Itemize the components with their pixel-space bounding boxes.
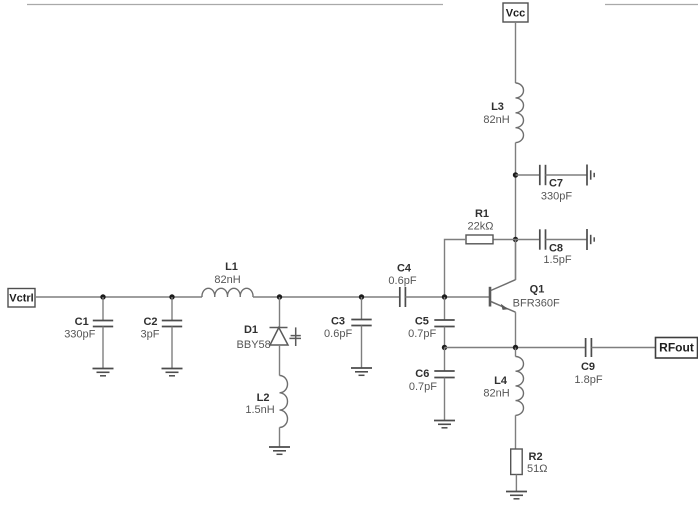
svg-text:C3: C3 <box>331 316 345 328</box>
wire D1 to L2 <box>279 345 281 376</box>
ground (C2) <box>162 369 183 376</box>
wire C8 to ground <box>546 239 588 241</box>
varactor diode D1 <box>237 324 301 351</box>
ground (C8, sideways) <box>587 229 594 250</box>
node C2 junction <box>169 294 174 299</box>
svg-text:C9: C9 <box>581 361 595 373</box>
wire Vcc to L3 <box>515 22 517 83</box>
wire C1 top lead <box>102 297 104 321</box>
svg-text:330pF: 330pF <box>541 191 572 203</box>
inductor L2 <box>245 375 287 427</box>
svg-text:Vctrl: Vctrl <box>9 293 33 305</box>
svg-text:C4: C4 <box>397 263 412 275</box>
svg-text:3pF: 3pF <box>141 329 160 341</box>
svg-text:82nH: 82nH <box>483 114 509 126</box>
svg-text:L3: L3 <box>491 101 504 113</box>
svg-text:0.6pF: 0.6pF <box>324 328 352 340</box>
svg-text:R2: R2 <box>529 451 543 463</box>
svg-text:82nH: 82nH <box>483 388 509 400</box>
port Vctrl <box>8 289 35 308</box>
ground (C3) <box>351 368 372 375</box>
node emitter-line junction left <box>442 345 447 350</box>
wire C1 to ground <box>102 327 104 369</box>
wire C5 to RFout node <box>444 327 446 348</box>
svg-text:BBY58: BBY58 <box>237 339 271 351</box>
svg-text:1.5pF: 1.5pF <box>543 254 571 266</box>
svg-text:BFR360F: BFR360F <box>513 298 560 310</box>
port RFout <box>656 338 698 359</box>
node D1 junction <box>277 294 282 299</box>
node C7 junction <box>513 172 518 177</box>
resistor R2 <box>511 449 548 475</box>
svg-text:L1: L1 <box>225 261 238 273</box>
svg-text:22kΩ: 22kΩ <box>468 221 494 233</box>
svg-text:D1: D1 <box>244 324 258 336</box>
wire C2 top lead <box>171 297 173 321</box>
transistor Q1 <box>490 280 560 313</box>
wire R1 left lead down to base node <box>445 240 467 298</box>
wire C6 to ground <box>444 378 446 421</box>
wire R2 to ground <box>515 475 517 492</box>
wire L3 to collector <box>515 143 517 280</box>
wire C4 to base node <box>406 296 491 298</box>
svg-text:0.6pF: 0.6pF <box>388 275 416 287</box>
wire L4 top lead <box>515 348 517 357</box>
svg-text:L4: L4 <box>494 375 508 387</box>
wire C9 to RFout <box>592 347 656 349</box>
svg-text:51Ω: 51Ω <box>527 463 547 475</box>
port Vcc <box>503 3 528 22</box>
wire RFout line left <box>445 347 586 349</box>
wire C3 top lead <box>361 297 363 320</box>
capacitor C3 <box>324 316 372 341</box>
ground (L2) <box>269 447 290 454</box>
capacitor C9 <box>574 338 602 386</box>
inductor L1 <box>202 261 253 297</box>
svg-text:0.7pF: 0.7pF <box>409 381 437 393</box>
svg-text:C8: C8 <box>549 243 563 255</box>
wire L1 to C4 <box>253 296 400 298</box>
svg-text:C1: C1 <box>75 316 89 328</box>
svg-text:330pF: 330pF <box>64 329 95 341</box>
node base junction <box>442 294 447 299</box>
node emitter-line junction right <box>513 345 518 350</box>
capacitor C1 <box>64 316 113 341</box>
wire C6 top lead <box>444 348 446 372</box>
node C8/R1 junction <box>513 237 518 242</box>
wire R1 right lead <box>493 239 516 241</box>
capacitor C8 <box>540 229 572 266</box>
node C1 junction <box>100 294 105 299</box>
capacitor C7 <box>540 165 573 203</box>
wire C7 to ground <box>546 174 588 176</box>
wire to C7 <box>516 174 540 176</box>
wire C5 top lead <box>444 297 446 320</box>
svg-text:Q1: Q1 <box>530 284 545 296</box>
svg-text:L2: L2 <box>257 392 270 404</box>
inductor L4 <box>483 357 523 416</box>
svg-text:C6: C6 <box>415 368 429 380</box>
wire L4 to R2 <box>515 415 517 449</box>
wire C3 to ground <box>361 326 363 368</box>
svg-text:C2: C2 <box>143 316 157 328</box>
wire collector up <box>515 240 517 280</box>
svg-text:C7: C7 <box>549 178 563 190</box>
svg-text:82nH: 82nH <box>214 274 240 286</box>
capacitor C2 <box>141 316 183 341</box>
ground (C1) <box>93 369 114 376</box>
svg-text:0.7pF: 0.7pF <box>408 328 436 340</box>
resistor R1 <box>466 208 493 244</box>
capacitor C6 <box>409 368 455 393</box>
node C3 junction <box>359 294 364 299</box>
svg-text:Vcc: Vcc <box>506 8 526 20</box>
svg-text:R1: R1 <box>475 208 489 220</box>
wire C2 to ground <box>171 327 173 369</box>
wire Vctrl to L1 <box>35 296 202 298</box>
svg-text:RFout: RFout <box>659 341 694 355</box>
wire emitter down <box>515 312 517 347</box>
wire to C8 <box>516 239 540 241</box>
wire L2 to ground <box>279 427 281 446</box>
ground (C7, sideways) <box>587 165 594 186</box>
svg-text:C5: C5 <box>415 316 429 328</box>
capacitor C4 <box>388 263 416 308</box>
ground (R2) <box>506 492 527 499</box>
capacitor C5 <box>408 316 455 341</box>
svg-text:1.8pF: 1.8pF <box>574 374 602 386</box>
svg-text:1.5nH: 1.5nH <box>245 404 274 416</box>
ground (C6) <box>434 421 455 428</box>
inductor L3 <box>483 83 523 143</box>
wire D1 top lead <box>279 297 281 328</box>
